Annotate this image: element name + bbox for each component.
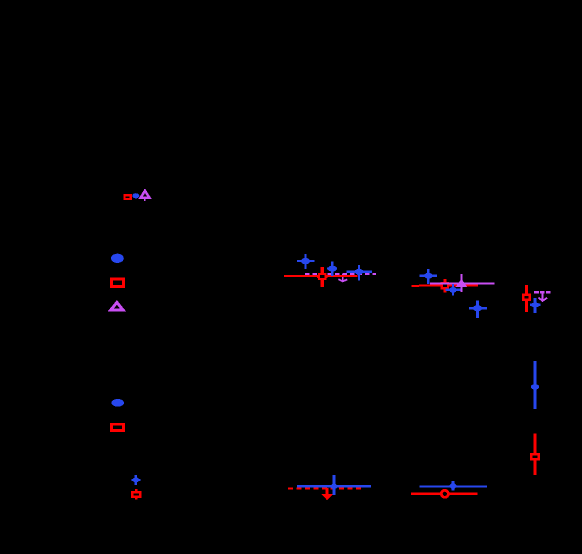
bottom-left blue small point xyxy=(132,475,141,485)
group2 red open-square point with error bars xyxy=(441,279,449,293)
group3 magenta dashed segment with upper-limit arrow xyxy=(534,292,551,301)
group1 blue point 1 xyxy=(297,254,314,269)
bottomA blue point with long error bar xyxy=(330,475,337,495)
top cluster: blue filled ellipse marker xyxy=(132,193,139,198)
bottomB blue point xyxy=(450,481,457,490)
legend1 red open square xyxy=(111,279,123,286)
group3 blue point 7 xyxy=(530,298,540,313)
group2 magenta solid fit line xyxy=(430,282,495,284)
right red vertical error bar with open square xyxy=(531,433,538,474)
group2 magenta open-triangle point with error bar xyxy=(458,274,465,292)
group2 blue point 6 xyxy=(469,300,487,318)
top cluster: magenta open triangle with error bar xyxy=(141,189,150,201)
group1 blue point 2 xyxy=(327,262,337,276)
group1 magenta upper-limit arrow xyxy=(338,274,347,282)
legend1 blue filled ellipse xyxy=(111,254,124,263)
group1 red open-square point with error bars xyxy=(317,267,327,287)
group1 magenta dashed fit line xyxy=(305,273,376,275)
right blue vertical error bar with marker xyxy=(531,361,539,409)
group2 blue point 5 xyxy=(445,284,460,296)
bottomA red downward arrow xyxy=(322,488,333,500)
group2 blue point 4 xyxy=(420,269,438,284)
legend1 magenta open triangle xyxy=(111,302,124,310)
bottomB blue solid line xyxy=(420,485,487,487)
legend2 blue filled ellipse xyxy=(111,399,124,407)
legend2 red open square xyxy=(112,424,124,430)
bottomB red open-circle point xyxy=(441,490,448,497)
bottomB red solid line xyxy=(411,493,478,495)
bottom-left red open-square point xyxy=(132,489,140,500)
group3 red open-square point with long error bar xyxy=(522,285,531,312)
group1 blue point 3 xyxy=(346,265,372,281)
group1 red solid fit line xyxy=(284,275,358,277)
group2 red solid fit line xyxy=(411,284,478,287)
bottomA blue solid line xyxy=(297,485,371,487)
top cluster: red open square marker xyxy=(125,195,131,199)
bottomA red dashed line xyxy=(288,487,362,489)
